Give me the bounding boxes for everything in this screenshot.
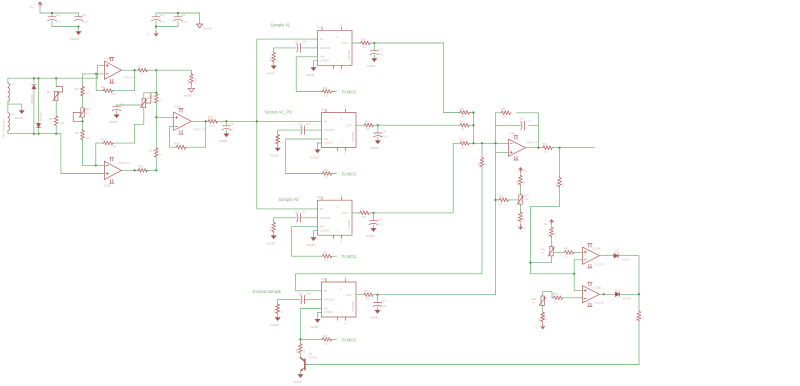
svg-text:IC5B: IC5B <box>104 184 110 188</box>
svg-text:100k: 100k <box>193 77 197 84</box>
svg-text:Ground Sample: Ground Sample <box>252 289 281 294</box>
resistor R13 output 2 <box>137 169 148 173</box>
ground hold cap AGND block 1 <box>371 58 377 62</box>
IC pin stubs bottom <box>338 148 346 151</box>
node gain chain bottom <box>155 169 157 171</box>
node feedback row3 <box>494 142 496 144</box>
ground shunt AGND block 1 <box>271 66 277 70</box>
svg-text:IC5C: IC5C <box>174 105 181 109</box>
svg-text:OUT: OUT <box>346 123 352 127</box>
node diff plus tap <box>155 116 157 118</box>
svg-text:Sensor AC_PD: Sensor AC_PD <box>265 110 293 115</box>
wire output branch down <box>559 148 561 177</box>
node row1 <box>472 111 474 113</box>
node diode bus <box>638 293 640 295</box>
svg-text:R14: R14 <box>174 142 180 146</box>
shunt resistor R8 to AGND <box>184 73 197 98</box>
node output feedback <box>133 69 135 71</box>
wire chold stub block 1 <box>274 47 318 49</box>
svg-text:330: 330 <box>366 298 371 301</box>
wire trimmer B bracket <box>543 292 552 298</box>
node top rail D2 <box>37 77 39 79</box>
svg-text:R5: R5 <box>75 131 79 135</box>
op-amp buffer IC5A <box>83 57 192 97</box>
svg-text:AGND: AGND <box>204 27 212 31</box>
wire collector lead <box>299 354 301 358</box>
wire hold cap lead block 3 <box>373 213 375 221</box>
V+ symbol bias <box>519 168 523 174</box>
svg-text:4k7: 4k7 <box>86 136 91 140</box>
wire C5 top <box>117 105 142 107</box>
svg-text:D10: D10 <box>615 251 620 254</box>
wire SH control path block 4 <box>300 309 336 340</box>
IC pin stubs bottom <box>338 317 346 320</box>
op-amp IC10A <box>583 244 600 268</box>
wire hold cap bottom block 2 <box>377 137 379 140</box>
capacitor C14 hold <box>370 51 379 55</box>
wire trimmer B bottom <box>542 306 544 312</box>
svg-text:R15: R15 <box>208 116 214 120</box>
wire diode D1 column <box>33 78 35 134</box>
IC box U1 <box>318 30 353 65</box>
wire pot to R2 <box>55 101 57 116</box>
wire feedback top row <box>496 112 539 114</box>
inductor L2 <box>8 112 10 130</box>
wire row2 right <box>469 124 473 126</box>
summing network <box>296 108 509 274</box>
wire diff output row <box>191 120 256 122</box>
IC box U3 <box>318 200 353 235</box>
wire sample3 out to summing <box>374 143 454 213</box>
wire trimmer to R39 <box>520 205 522 212</box>
capacitor C13 series <box>301 295 305 304</box>
svg-text:V-: V- <box>524 226 527 230</box>
resistor R39 <box>519 211 523 222</box>
IC pin stubs top <box>326 279 346 282</box>
wire emitter lead <box>300 371 302 374</box>
svg-text:100: 100 <box>324 259 329 262</box>
node trimmer A join <box>529 261 531 263</box>
ground AGND right <box>196 24 202 28</box>
comparator A threshold chain <box>530 220 582 263</box>
node output feedback <box>537 147 539 149</box>
svg-text:100k: 100k <box>502 116 508 119</box>
wire C1 bottom <box>52 21 79 27</box>
wire R9 to bracket <box>155 104 157 147</box>
capacitor C1 <box>48 17 57 21</box>
svg-text:R26: R26 <box>323 252 328 255</box>
svg-text:330: 330 <box>544 151 549 154</box>
wire wiper A row <box>554 251 583 253</box>
supply section 1 <box>30 2 89 41</box>
node bottom rail D1 <box>33 133 35 135</box>
wire plus input stub <box>496 151 509 153</box>
node caps bottom <box>155 25 157 27</box>
svg-text:1N4148: 1N4148 <box>622 259 631 262</box>
comparator A <box>574 244 639 295</box>
svg-text:R23: R23 <box>365 290 370 293</box>
resistor R35 output <box>542 146 553 150</box>
wire chold stub block 4 <box>278 299 322 301</box>
wire sample1 out to summing <box>374 43 443 113</box>
svg-text:R36: R36 <box>516 180 519 185</box>
node bottom rail pot <box>55 133 57 135</box>
wire plus input path <box>98 66 105 79</box>
node out block 2 <box>377 124 379 126</box>
node feedback minus 2 <box>95 164 97 166</box>
resistor R15 diff output <box>207 119 218 123</box>
node top rail D1 <box>33 77 35 79</box>
node bus main <box>256 120 258 122</box>
svg-text:C6: C6 <box>230 122 234 126</box>
svg-text:LOGIC: LOGIC <box>324 310 333 314</box>
svg-text:TL072P: TL072P <box>594 262 604 266</box>
svg-text:AGND: AGND <box>371 146 379 150</box>
node output B <box>603 293 605 295</box>
trimmer R4 <box>73 108 85 122</box>
wire ground inject lead <box>481 143 483 156</box>
wire summing node column <box>473 113 475 144</box>
capacitor C4 <box>174 17 183 21</box>
svg-text:IN: IN <box>320 37 323 41</box>
trimmer R42 <box>548 247 554 257</box>
svg-text:1n: 1n <box>230 128 234 132</box>
svg-text:CHOLD: CHOLD <box>324 298 334 302</box>
svg-text:1N4148: 1N4148 <box>622 297 631 300</box>
capacitor C3 <box>152 17 161 21</box>
resistor R38 wiper <box>498 198 509 202</box>
ground R8 AGND <box>188 88 194 92</box>
wire hold cap lead block 4 <box>377 295 379 303</box>
svg-text:To MCU: To MCU <box>342 90 357 95</box>
svg-text:C17: C17 <box>381 300 386 303</box>
wire R11 to out2 <box>155 158 157 170</box>
ground AGND <box>76 31 82 35</box>
svg-text:LMP7300: LMP7300 <box>352 132 355 143</box>
svg-text:100: 100 <box>324 342 329 345</box>
svg-text:To MCU: To MCU <box>342 337 357 342</box>
wire pot R1 column top <box>55 78 57 86</box>
svg-text:AGND: AGND <box>219 139 227 143</box>
svg-text:R48: R48 <box>296 348 299 353</box>
node row3 <box>472 142 474 144</box>
svg-text:C14: C14 <box>378 48 383 51</box>
svg-text:AGND: AGND <box>366 234 374 238</box>
svg-text:C11: C11 <box>299 123 304 126</box>
wire output row 2 <box>121 169 156 171</box>
svg-text:IC6A: IC6A <box>509 132 515 136</box>
resistor R20 out <box>360 41 371 45</box>
svg-text:LOGIC: LOGIC <box>320 59 329 63</box>
node top rail pot <box>55 77 57 79</box>
op-amp U6 <box>509 136 526 160</box>
svg-text:R34: R34 <box>501 108 506 111</box>
svg-text:OUT: OUT <box>346 293 352 297</box>
svg-text:LMP7300: LMP7300 <box>348 219 351 230</box>
ground IC AGND block 4 <box>315 319 321 323</box>
svg-text:R7: R7 <box>138 65 142 69</box>
wire wiper row <box>496 199 519 201</box>
wire hold cap bottom block 1 <box>373 55 375 58</box>
svg-text:R19: R19 <box>274 309 277 314</box>
op-amp U5C <box>174 109 192 135</box>
svg-text:330: 330 <box>210 124 215 128</box>
resistor R9 <box>154 93 158 104</box>
svg-text:R39: R39 <box>516 217 519 222</box>
wire minus input row 2 <box>83 164 105 166</box>
capacitor C10 series <box>297 44 301 53</box>
svg-text:R25: R25 <box>323 169 328 172</box>
svg-text:IN: IN <box>324 119 327 123</box>
wire R5 to lower input <box>82 141 84 166</box>
svg-text:4.7u: 4.7u <box>160 20 166 24</box>
wire diode D2 column <box>38 78 40 134</box>
svg-text:1M: 1M <box>276 59 279 62</box>
svg-text:R13: R13 <box>138 165 144 169</box>
capacitor C17 hold <box>373 303 382 307</box>
svg-text:R47: R47 <box>635 316 638 321</box>
svg-text:470n: 470n <box>381 305 387 308</box>
svg-text:100n: 100n <box>302 41 308 44</box>
wire trimmer A bottom path <box>530 256 551 262</box>
transistor Q1 <box>300 358 306 371</box>
wire gain column top <box>82 74 84 87</box>
svg-text:R18: R18 <box>270 227 273 232</box>
svg-text:AGND: AGND <box>306 243 314 247</box>
svg-text:C15: C15 <box>382 131 387 134</box>
wire input line block 4 <box>296 274 322 291</box>
wire diff minus stub <box>170 126 174 147</box>
capacitor C12 series <box>297 214 301 223</box>
wire chold stub block 2 <box>278 129 322 131</box>
svg-text:IC7: IC7 <box>317 26 321 29</box>
resistor R47 pulldown <box>637 310 641 321</box>
op-amp buffer IC5B <box>61 134 156 188</box>
wire feedback loop <box>96 70 134 91</box>
wire C5 bottom <box>116 111 118 114</box>
capacitor C5 <box>112 107 121 111</box>
svg-text:L1: L1 <box>11 82 15 86</box>
wire row3 <box>453 142 508 144</box>
wire sample4 out to plus column <box>378 294 496 296</box>
supply section 2 <box>147 12 212 36</box>
node rail 2 <box>177 12 179 14</box>
IC pin stubs top <box>322 27 342 30</box>
wire collector resistor lead <box>299 339 301 342</box>
wire bus vertical <box>256 39 258 209</box>
svg-text:R6: R6 <box>101 85 105 89</box>
gain chain mid column <box>109 70 163 171</box>
wire R3 to trimmer <box>82 97 84 108</box>
svg-text:To MCU: To MCU <box>342 254 357 259</box>
node feedback minus <box>95 73 97 75</box>
wire SH control path block 2 <box>286 139 337 174</box>
op-amp U5B <box>104 158 121 184</box>
svg-text:IC8: IC8 <box>321 108 325 111</box>
summing op-amp IC6A <box>509 132 595 160</box>
svg-text:R27: R27 <box>323 335 328 338</box>
svg-text:100n: 100n <box>306 292 312 295</box>
bias divider for plus input <box>494 168 529 231</box>
wire C6 bottom <box>225 130 227 133</box>
svg-text:100: 100 <box>324 95 329 98</box>
wire V+ rail <box>40 9 79 14</box>
svg-text:330: 330 <box>362 46 367 49</box>
wire output row <box>121 70 191 73</box>
svg-text:V+: V+ <box>30 5 34 9</box>
wire shunt lead block 4 <box>277 300 279 304</box>
diode D2 <box>37 123 41 127</box>
svg-text:OPA2376: OPA2376 <box>123 76 136 80</box>
vertical bus <box>256 39 258 209</box>
comparator reference path <box>529 148 575 291</box>
svg-text:CHOLD: CHOLD <box>320 216 330 220</box>
svg-text:75: 75 <box>140 173 144 177</box>
sample block 1 <box>257 24 384 98</box>
svg-text:470n: 470n <box>377 223 383 226</box>
wire diff plus input <box>156 116 173 118</box>
ground hold cap AGND block 2 <box>375 140 381 144</box>
wire R41 to trimmer A <box>551 237 553 246</box>
svg-text:R21: R21 <box>365 121 370 124</box>
IC pin stubs bottom <box>334 65 342 68</box>
wire gnd pin stub block 2 <box>318 143 322 149</box>
IC pin stubs top <box>326 109 346 112</box>
svg-text:OUT: OUT <box>342 41 348 45</box>
wire sample2 out to summing <box>378 124 460 126</box>
svg-text:AGND: AGND <box>184 94 192 98</box>
wire R36 to trimmer <box>520 186 522 195</box>
svg-text:C20: C20 <box>520 118 525 121</box>
svg-text:BZX84: BZX84 <box>39 112 43 121</box>
resistor R14 diff feedback <box>175 145 186 149</box>
resistor R17 shunt <box>276 134 280 145</box>
trimmer R10 <box>140 93 151 108</box>
svg-text:AGND: AGND <box>310 155 318 159</box>
resistor R22 out <box>359 211 370 215</box>
resistor R8 <box>190 73 194 84</box>
wire shunt lead block 2 <box>277 130 279 134</box>
wire rail 2 <box>156 13 200 24</box>
svg-text:R40: R40 <box>555 182 558 187</box>
wire R8 bottom <box>190 84 192 88</box>
IC pin stubs top <box>322 197 342 200</box>
wire minus stub A <box>574 259 582 261</box>
trimmer R44 <box>539 296 545 306</box>
input connector section <box>2 77 98 138</box>
resistor R46 <box>541 311 545 322</box>
svg-text:1M: 1M <box>280 141 283 144</box>
wire reference path <box>530 188 574 274</box>
wire comparator input column <box>573 260 575 291</box>
svg-text:100: 100 <box>324 177 329 180</box>
wire center tap <box>8 101 22 112</box>
svg-text:R30: R30 <box>460 108 465 111</box>
svg-text:100n: 100n <box>82 20 89 24</box>
IC pin stubs bottom <box>334 235 342 238</box>
wire hold cap bottom block 4 <box>377 307 379 310</box>
diode D1 <box>32 85 36 89</box>
node wiper column <box>494 199 496 201</box>
svg-text:IC5A: IC5A <box>104 57 110 61</box>
wire C1 top lead <box>51 13 53 17</box>
svg-text:AGND: AGND <box>306 73 314 77</box>
svg-text:75: 75 <box>140 73 144 77</box>
svg-text:330: 330 <box>362 216 367 219</box>
wire output A <box>600 255 614 257</box>
wire out row block 3 <box>352 212 374 214</box>
node shunt cap tap <box>225 120 227 122</box>
wire trimmer to R5 <box>82 118 84 131</box>
svg-text:C10: C10 <box>295 41 300 44</box>
trimmer R37 <box>517 195 523 205</box>
svg-text:OUT: OUT <box>342 211 348 215</box>
wire left rail top <box>8 78 98 83</box>
ground IC AGND block 1 <box>311 67 317 71</box>
svg-text:AGND: AGND <box>310 325 318 329</box>
ground shunt AGND block 3 <box>271 235 277 239</box>
ground IC AGND block 2 <box>315 150 321 154</box>
resistor R45 <box>553 296 564 300</box>
diode D11 <box>615 292 619 296</box>
svg-text:LMP7300: LMP7300 <box>348 49 351 60</box>
svg-text:R43: R43 <box>564 248 569 251</box>
wire trimmer bracket <box>144 93 157 98</box>
wire wiper B row <box>552 297 583 299</box>
ground C5 AGND <box>114 115 120 119</box>
svg-text:C4: C4 <box>182 13 186 17</box>
svg-text:LOGIC: LOGIC <box>324 141 333 145</box>
wire plus stub B <box>574 289 582 291</box>
wire shunt bottom block 1 <box>273 63 275 66</box>
node bottom rail D2 <box>37 133 39 135</box>
svg-text:470n: 470n <box>378 53 384 56</box>
node output branch <box>558 147 560 149</box>
resistor R34 feedback <box>500 111 511 115</box>
ground center tap AGND <box>19 110 25 114</box>
svg-text:OPA2376: OPA2376 <box>118 161 131 165</box>
wire diff feedback row <box>170 121 206 147</box>
node row2 <box>472 124 474 126</box>
svg-text:100k: 100k <box>110 92 117 96</box>
svg-text:TL072P: TL072P <box>594 301 604 305</box>
resistor R36 <box>519 175 523 186</box>
node on V+ rail <box>51 12 53 14</box>
ground hold cap AGND block 4 <box>375 310 381 314</box>
ground shunt AGND block 2 <box>275 148 281 152</box>
sample block 4 <box>270 274 387 346</box>
wire input line block 3 <box>257 208 318 210</box>
svg-text:R1: R1 <box>47 90 51 94</box>
resistor R11 <box>154 147 158 158</box>
wire R2 bottom <box>55 126 57 133</box>
ground shunt AGND block 4 <box>275 317 281 321</box>
svg-text:1M: 1M <box>280 310 283 313</box>
svg-text:R20: R20 <box>361 38 366 41</box>
svg-text:IC9: IC9 <box>317 196 321 199</box>
svg-text:C12: C12 <box>295 211 300 214</box>
svg-text:IN: IN <box>324 289 327 293</box>
svg-text:AGND: AGND <box>109 120 117 124</box>
resistor R12 feedback 2 <box>103 141 114 145</box>
svg-text:C2: C2 <box>82 13 86 17</box>
resistor R26 to MCU <box>322 254 333 258</box>
V- symbol bias <box>519 224 523 230</box>
V- symbol <box>154 31 158 37</box>
feedback network summing amp <box>494 108 538 295</box>
V+ symbol chain A <box>550 220 554 226</box>
resistor R23 out <box>363 293 374 297</box>
